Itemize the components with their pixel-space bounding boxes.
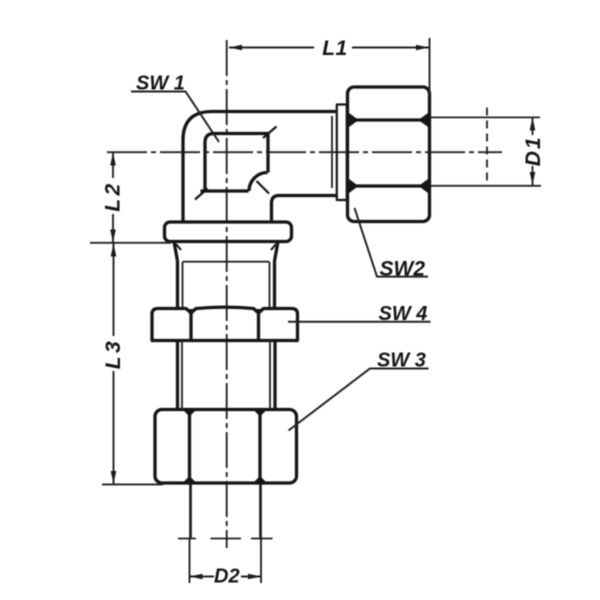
svg-text:SW 1: SW 1 [136, 73, 185, 95]
svg-text:D2: D2 [214, 566, 240, 588]
svg-text:SW 3: SW 3 [377, 350, 426, 372]
svg-text:L2: L2 [102, 180, 125, 212]
svg-text:D1: D1 [522, 135, 545, 166]
svg-text:L3: L3 [102, 338, 125, 370]
svg-text:L1: L1 [322, 37, 348, 60]
svg-text:SW 4: SW 4 [379, 303, 428, 325]
svg-text:SW2: SW2 [380, 258, 426, 281]
